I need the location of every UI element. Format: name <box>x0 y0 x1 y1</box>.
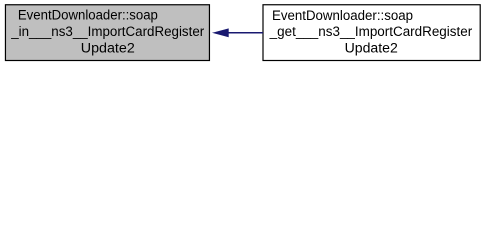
edge arrow (midnightblue, pointing left into grey node) <box>214 29 263 37</box>
svg-text:Update2: Update2 <box>345 40 398 55</box>
svg-text:_get___ns3__ImportCardRegister: _get___ns3__ImportCardRegister <box>269 24 473 39</box>
svg-text:Update2: Update2 <box>81 40 135 55</box>
svg-text:_in___ns3__ImportCardRegister: _in___ns3__ImportCardRegister <box>10 24 205 39</box>
svg-text:EventDownloader::soap: EventDownloader::soap <box>272 8 413 23</box>
node EventDownloader::soap_get___ns3__ImportCardRegisterUpdate2 (callee, white fill) <box>263 5 480 61</box>
node EventDownloader::soap_in___ns3__ImportCardRegisterUpdate2 (current node, grey fill) <box>5 5 209 61</box>
svg-text:EventDownloader::soap: EventDownloader::soap <box>18 8 158 23</box>
